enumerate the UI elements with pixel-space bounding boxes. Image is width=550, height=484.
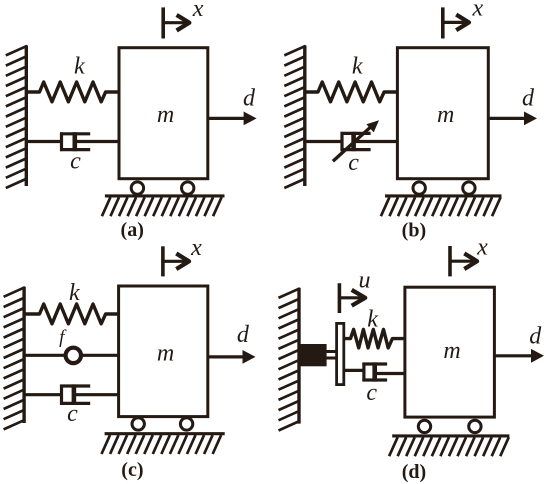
svg-text:(a): (a)	[121, 219, 144, 241]
svg-text:x: x	[190, 235, 202, 261]
svg-text:u: u	[359, 268, 371, 294]
svg-text:k: k	[367, 307, 378, 333]
svg-text:f: f	[59, 327, 67, 348]
svg-text:d: d	[243, 85, 256, 111]
actuator force f link (c)	[24, 348, 119, 363]
svg-text:k: k	[69, 280, 80, 306]
svg-text:(c): (c)	[121, 459, 143, 481]
wheels (a)	[131, 182, 194, 194]
damper c (a)	[26, 132, 119, 151]
spring k (a)	[26, 82, 119, 102]
coordinate arrow x (d)	[450, 235, 488, 277]
svg-text:(b): (b)	[402, 220, 426, 242]
svg-text:c: c	[67, 401, 78, 427]
actuator block (d)	[301, 345, 327, 366]
svg-text:m: m	[157, 341, 174, 367]
wall (a)	[6, 45, 27, 188]
wheels (b)	[413, 182, 475, 194]
actuator plate (d)	[337, 323, 344, 384]
damper c (d)	[345, 362, 405, 381]
svg-text:m: m	[157, 102, 174, 128]
svg-text:m: m	[443, 338, 460, 364]
wheels (d)	[418, 420, 481, 432]
coordinate arrow x (c)	[163, 235, 202, 277]
spring k (c)	[24, 304, 119, 324]
damper c (c)	[24, 384, 119, 405]
mass m (d)	[405, 287, 495, 417]
disturbance arrow d (d)	[495, 324, 545, 363]
coordinate arrow x (b)	[443, 0, 484, 38]
ground (a)	[102, 196, 225, 216]
svg-text:d: d	[237, 322, 250, 348]
svg-text:x: x	[476, 235, 488, 261]
mass m (a)	[119, 48, 208, 179]
ground (d)	[389, 436, 509, 456]
disturbance arrow d (a)	[208, 85, 257, 125]
disturbance arrow d (b)	[488, 85, 537, 125]
ground (b)	[381, 196, 502, 216]
spring k (d)	[345, 329, 405, 348]
svg-text:x: x	[471, 0, 483, 22]
mass m (b)	[397, 48, 488, 179]
svg-text:d: d	[522, 85, 535, 111]
svg-text:(d): (d)	[402, 461, 426, 483]
svg-text:x: x	[192, 0, 204, 22]
wheels (c)	[132, 418, 193, 430]
damper c (b)	[305, 132, 398, 151]
coordinate arrow u (d)	[339, 268, 370, 313]
mass m (c)	[119, 286, 208, 417]
variable-damper arrow (b)	[333, 120, 379, 161]
svg-text:k: k	[74, 54, 85, 80]
actuator prongs (d)	[326, 352, 336, 359]
svg-text:c: c	[348, 150, 359, 176]
ground (c)	[102, 434, 225, 454]
spring k (b)	[305, 82, 398, 102]
wall (d)	[279, 288, 300, 431]
svg-text:d: d	[529, 324, 542, 350]
svg-text:c: c	[70, 148, 81, 174]
svg-text:c: c	[366, 380, 377, 406]
wall (c)	[4, 287, 25, 430]
svg-text:k: k	[352, 54, 363, 80]
svg-text:m: m	[437, 102, 454, 128]
disturbance arrow d (c)	[208, 322, 256, 364]
coordinate arrow x (a)	[163, 0, 204, 39]
wall (b)	[284, 45, 305, 188]
